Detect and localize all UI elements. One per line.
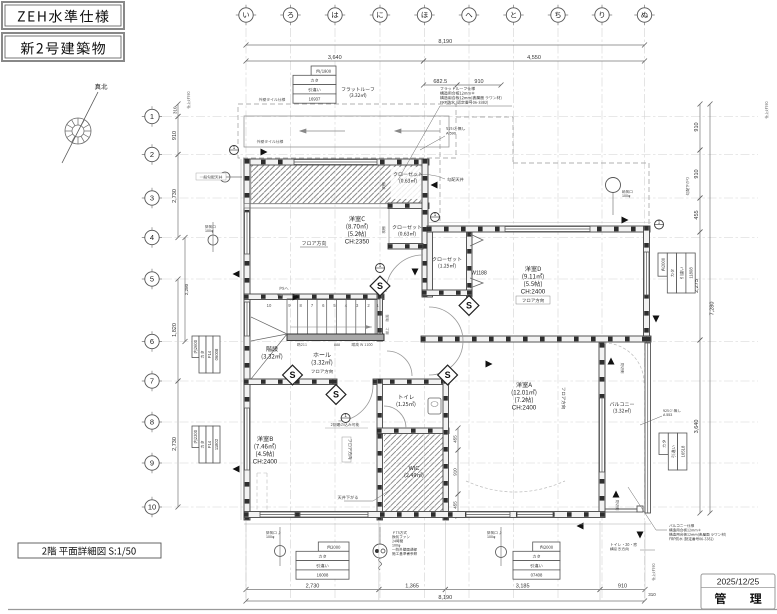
- haikiko bottom right: [496, 547, 507, 558]
- dim 2730 left upper: [177, 155, 179, 238]
- window bottom yoshitsuA: [466, 512, 510, 517]
- svg-text:910: 910: [618, 584, 627, 590]
- vent triangle 9: [577, 523, 584, 530]
- svg-text:6: 6: [150, 337, 154, 346]
- window bottom yoshitsuB 2: [300, 512, 368, 517]
- stamp box: [701, 574, 775, 609]
- vent triangle 11: [293, 294, 300, 301]
- dim 1365 bottom: [379, 589, 445, 591]
- spec table right balcony: [659, 433, 687, 470]
- door arc yoshitsuB: [338, 385, 373, 421]
- floor dir D: [516, 296, 550, 304]
- dim 3185 bottom: [445, 589, 600, 591]
- svg-text:100φ: 100φ: [266, 535, 275, 539]
- dim 910 bottom: [600, 589, 645, 591]
- svg-text:2,730: 2,730: [306, 584, 320, 590]
- spec table left 2: [192, 426, 220, 463]
- stair side tiny labels: [386, 315, 389, 322]
- wall hall bottom F: [244, 379, 337, 385]
- haikiko bottom left: [275, 546, 286, 557]
- svg-text:S: S: [289, 370, 295, 380]
- fan symbol: [373, 544, 387, 558]
- page border bottom: [8, 609, 777, 611]
- eave line above D: [429, 222, 651, 224]
- window left yoshitsuC: [245, 212, 250, 254]
- koubai sagari right: [686, 177, 690, 195]
- svg-text:A 553: A 553: [663, 413, 672, 417]
- wall hatchband bottom C: [388, 203, 429, 209]
- floor dir C: [302, 241, 326, 246]
- closet063 thin left line: [388, 209, 390, 244]
- svg-text:310: 310: [173, 106, 178, 114]
- balcony spec note: [669, 524, 694, 527]
- svg-text:4,550: 4,550: [527, 55, 541, 61]
- dim 2730 bottom: [246, 589, 379, 591]
- wall top A: [244, 159, 429, 165]
- vent triangle 5: [608, 358, 615, 365]
- dim 910 left: [177, 117, 179, 155]
- svg-text:100φ: 100φ: [392, 544, 401, 548]
- svg-text:1,820: 1,820: [172, 323, 178, 337]
- circled mark 5: [376, 264, 385, 273]
- wall toilet right J: [443, 379, 449, 520]
- dim 910 right top: [699, 104, 701, 150]
- dim 2730 left lower: [177, 381, 179, 507]
- wall closet125 bottom O: [422, 290, 472, 296]
- spec table left 1: [192, 336, 220, 373]
- dim 455 right: [699, 198, 701, 232]
- window left yoshitsuB: [245, 408, 250, 470]
- S diamond yoshitsuB door: [326, 385, 346, 405]
- svg-text:CH:2350: CH:2350: [345, 239, 370, 246]
- vent triangle 6: [613, 491, 620, 498]
- room yoshitsuD label: [525, 266, 541, 272]
- svg-text:3,640: 3,640: [328, 55, 342, 61]
- svg-text:CH:2400: CH:2400: [512, 405, 537, 412]
- circled mark 4: [341, 414, 350, 423]
- svg-text:S: S: [466, 301, 472, 311]
- fan note: [393, 531, 407, 534]
- compass true-north: [62, 84, 107, 163]
- dim 7280 right: [709, 104, 711, 513]
- wall mid vertical D: [422, 159, 428, 297]
- eave line bottom: [244, 523, 651, 525]
- svg-text:7: 7: [150, 377, 154, 386]
- roof slope arrows: [300, 129, 440, 133]
- hatched band upper: [251, 165, 421, 204]
- svg-text:9: 9: [150, 459, 154, 468]
- svg-text:100φ: 100φ: [205, 229, 214, 233]
- wall closet063 bottom: [388, 244, 423, 250]
- svg-text:W1188: W1188: [471, 271, 487, 277]
- drawing title: [18, 543, 161, 558]
- window left stair: [245, 302, 250, 336]
- room hall label: [313, 352, 330, 357]
- window bottom yoshitsuA 2: [517, 512, 553, 517]
- tenjo sagaru note: [338, 495, 358, 499]
- dim 3640 right: [699, 340, 701, 513]
- svg-text:10: 10: [148, 503, 156, 512]
- svg-text:06008: 06008: [214, 348, 219, 360]
- sheathing line left: [240, 159, 242, 520]
- svg-text:16518: 16518: [680, 445, 685, 457]
- closet upper label: [393, 172, 422, 177]
- room toilet label: [400, 395, 414, 399]
- svg-text:2: 2: [150, 150, 154, 159]
- parapet note: [446, 127, 465, 131]
- svg-text:2,280: 2,280: [184, 283, 189, 295]
- wall wic left H3: [377, 434, 383, 520]
- balcony outer rail: [645, 343, 651, 513]
- door arc hall corridor: [387, 351, 412, 376]
- mihari vert text: [621, 363, 624, 373]
- svg-text:888: 888: [334, 343, 340, 347]
- room yoshitsuA label: [516, 382, 532, 388]
- room kaidan label: [266, 346, 277, 352]
- svg-text:682.5: 682.5: [433, 79, 447, 85]
- toilet mado note: [611, 543, 637, 546]
- spec table bottom 1: [296, 542, 349, 579]
- yoshitsuB dashed closet lines: [257, 473, 267, 512]
- title box building: [2, 33, 124, 61]
- stair treads: [287, 299, 380, 335]
- svg-text:1: 1: [150, 112, 154, 121]
- haikiko left: [208, 235, 218, 245]
- closet dashed curve A: [466, 481, 565, 492]
- floor dir A vertical: [562, 387, 566, 408]
- wall yoshitsuD right Q: [644, 226, 650, 341]
- S diamond stair: [283, 365, 303, 385]
- PS note: [280, 287, 289, 290]
- hatched WIC floor: [384, 434, 443, 514]
- spec table top: [293, 66, 336, 103]
- kyukiko D: [606, 178, 621, 193]
- makura-dana text1: [382, 183, 385, 190]
- shiage note right: [765, 102, 768, 119]
- svg-text:3: 3: [150, 194, 154, 203]
- vent triangle 7: [622, 217, 629, 224]
- svg-text:4: 4: [150, 233, 154, 242]
- wall yoshitsuA right R: [599, 343, 605, 517]
- stair tiny labels: [297, 343, 307, 346]
- floor dir B vertical: [342, 437, 351, 462]
- wall toilet left H2: [377, 379, 383, 434]
- flat roof inner rect: [244, 116, 449, 147]
- door arc yoshitsuD swing: [429, 307, 463, 341]
- haikiko left upper: [220, 172, 230, 182]
- svg-text:100φ: 100φ: [487, 535, 496, 539]
- window yoshitsuD right: [644, 252, 649, 295]
- svg-text:10: 10: [267, 303, 272, 308]
- svg-text:WIC: WIC: [409, 466, 420, 472]
- svg-text:310: 310: [648, 592, 656, 597]
- ippan koubai note: [196, 173, 226, 180]
- shiage note left: [187, 92, 190, 109]
- wall closet125 left M: [427, 232, 433, 297]
- svg-text:2,730: 2,730: [172, 189, 178, 203]
- svg-text:16008: 16008: [317, 573, 329, 578]
- S diamond yoshitsuD: [459, 296, 479, 316]
- dim 2280 left: [184, 238, 186, 342]
- door arc toilet: [384, 406, 406, 428]
- balcony label: [610, 402, 634, 406]
- room yoshitsuC label: [349, 216, 365, 222]
- svg-text:1,365: 1,365: [405, 584, 419, 590]
- door arc yoshitsuC: [386, 255, 423, 292]
- circled mark 2: [431, 213, 440, 222]
- svg-text:910: 910: [474, 79, 483, 85]
- gaiheki note top: [259, 98, 285, 102]
- wall yoshitsuA top L: [421, 336, 651, 342]
- svg-text:2025/12/25: 2025/12/25: [717, 577, 760, 587]
- svg-text:8: 8: [150, 418, 154, 427]
- flat roof label: [342, 87, 374, 91]
- svg-text:100φ: 100φ: [622, 194, 631, 198]
- svg-text:2,730: 2,730: [172, 437, 178, 451]
- door arc balcony upper: [604, 343, 644, 383]
- svg-text:16937: 16937: [309, 97, 321, 102]
- svg-text:8,190: 8,190: [438, 39, 452, 45]
- wall yoshitsuD top P: [427, 226, 650, 232]
- wall closet125 right N: [467, 232, 473, 297]
- S diamond closetD: [438, 365, 458, 385]
- svg-text:F14: F14: [207, 350, 212, 358]
- svg-text:455: 455: [453, 435, 458, 443]
- svg-text:455: 455: [453, 501, 458, 509]
- dim 1820 left: [177, 279, 179, 381]
- dim 910 right 2: [699, 150, 701, 198]
- shiage vertical bottom right: [652, 564, 655, 581]
- svg-text:455: 455: [694, 210, 700, 219]
- svg-text:5: 5: [150, 275, 154, 284]
- floor dir hall: [311, 369, 332, 373]
- bifold chevrons: [470, 234, 483, 288]
- vent triangle 13: [431, 182, 438, 189]
- svg-text:11808: 11808: [689, 267, 694, 279]
- flat roof dashed outline: [238, 104, 649, 226]
- window bottom yoshitsuB: [260, 512, 295, 517]
- svg-text:S: S: [445, 370, 451, 380]
- vent triangle 12: [486, 361, 493, 368]
- svg-text:CH:2400: CH:2400: [253, 459, 278, 466]
- dim 2275 right: [699, 232, 701, 340]
- grid column bubbles: [236, 5, 655, 25]
- svg-text:7,280: 7,280: [710, 302, 716, 316]
- wall yoshitsuC bottom E: [244, 294, 384, 300]
- toilet fixture: [428, 398, 441, 414]
- wall left B: [244, 159, 250, 520]
- wall toilet bottom K: [377, 428, 449, 434]
- svg-text:A 590: A 590: [446, 131, 457, 136]
- svg-text:07408: 07408: [531, 573, 543, 578]
- grid chain lines: [163, 28, 758, 600]
- svg-text:3,185: 3,185: [516, 584, 530, 590]
- vent triangle 2: [233, 271, 240, 278]
- grid row bubbles: [142, 106, 162, 517]
- window yoshitsuA right door: [600, 398, 605, 472]
- dim 3640 top: [246, 60, 424, 62]
- spec table bottom 2: [513, 542, 560, 579]
- vent triangle 8: [637, 532, 644, 539]
- wall toilet top I: [373, 379, 449, 385]
- room yoshitsuB label: [257, 436, 273, 442]
- circled mark 1: [230, 146, 239, 155]
- vent triangle 10: [653, 316, 660, 323]
- vent triangle 3: [233, 466, 240, 473]
- closet lower label: [392, 225, 421, 230]
- dim 8190 bottom: [246, 600, 645, 602]
- svg-text:910: 910: [172, 131, 178, 140]
- svg-text:S: S: [333, 390, 339, 400]
- extension lines bottom: [246, 521, 645, 600]
- vent triangle 1: [261, 149, 268, 156]
- svg-text:F14: F14: [207, 440, 212, 448]
- vent triangle 4: [412, 269, 419, 276]
- beam line under hatch: [244, 204, 389, 209]
- circled mark 3: [655, 220, 664, 229]
- dim 455-910-455 toilet: [457, 428, 459, 450]
- roof spec note: [441, 87, 475, 91]
- dim 910 top: [457, 84, 501, 86]
- window yoshitsuD top: [505, 227, 590, 232]
- svg-text:11802: 11802: [214, 438, 219, 450]
- dim 8190 top: [246, 44, 645, 46]
- S diamond yoshitsuC: [370, 276, 390, 296]
- wall bottom G: [244, 512, 605, 518]
- svg-text:910: 910: [694, 169, 700, 178]
- wall corridor H1: [377, 294, 383, 341]
- dim 682.5: [424, 84, 458, 86]
- dim 4550 top: [424, 60, 645, 62]
- svg-text:910: 910: [453, 468, 458, 476]
- tesuri note: [663, 409, 681, 412]
- koubai tenjo right-top: [447, 177, 463, 181]
- svg-text:S: S: [377, 281, 383, 291]
- svg-text:3,640: 3,640: [694, 420, 700, 434]
- gaiheki note 2: [257, 140, 283, 144]
- title box ZEH: [2, 2, 124, 29]
- svg-text:910: 910: [694, 122, 700, 131]
- dim 310 left: [177, 104, 179, 117]
- svg-text:CH:2400: CH:2400: [521, 289, 546, 296]
- spec table right D: [658, 253, 695, 293]
- nikai komi note: [331, 423, 359, 427]
- makura-dana text2: [382, 227, 385, 234]
- closet 125 label: [432, 257, 461, 262]
- window top wall: [294, 160, 377, 165]
- mihari vert text2: [616, 500, 619, 510]
